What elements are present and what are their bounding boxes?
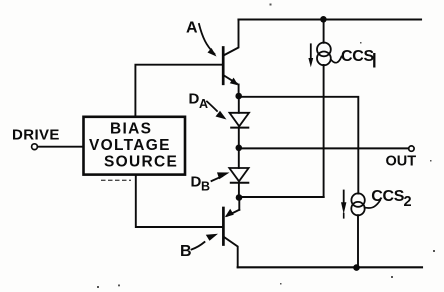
diode DB: [229, 168, 248, 183]
scan speckles: [97, 4, 435, 289]
svg-text:CCS: CCS: [341, 48, 375, 65]
wire: base of A from bias box: [135, 65, 223, 117]
svg-text:D: D: [189, 91, 200, 108]
node: bottom rail junction to CCS2: [353, 264, 360, 271]
current direction arrow for CCS2: [341, 191, 346, 218]
node: output node between DA and DB: [236, 145, 243, 152]
label: DB (diode): [191, 174, 211, 194]
node: A emitter / DA anode junction: [235, 93, 242, 100]
svg-text:D: D: [191, 174, 202, 191]
svg-text:2: 2: [404, 194, 412, 210]
svg-text:DRIVE: DRIVE: [12, 127, 60, 144]
wire: DB cathode down to node: [238, 183, 240, 198]
wire: DA anode lead: [238, 96, 240, 113]
svg-text:CCS: CCS: [371, 188, 405, 205]
svg-text:SOURCE: SOURCE: [104, 154, 178, 171]
diode DA: [230, 113, 250, 128]
wire: top supply rail: [239, 18, 422, 20]
svg-text:A: A: [186, 20, 198, 37]
scan artifact: dashed streak under bias box: [101, 179, 131, 181]
wire: DRIVE input to bias box: [38, 146, 84, 148]
transistor A emitter with arrow: [224, 76, 239, 97]
terminal: OUT open circle: [409, 146, 414, 151]
label: CCS2: [371, 188, 411, 210]
wire: bottom supply rail: [238, 266, 422, 268]
svg-text:BIAS: BIAS: [110, 121, 152, 138]
wire: from node A-emitter right to CCS2 column: [239, 97, 359, 194]
wire: DA cathode to mid node: [238, 128, 240, 148]
leader arrow for label B: [192, 234, 219, 250]
wire: DB anode lead: [238, 148, 240, 168]
wire: output line to OUT terminal: [239, 147, 409, 149]
wire: base of B from bias box: [136, 176, 224, 227]
svg-text:A: A: [199, 97, 208, 111]
leader arrow for label DB: [212, 172, 230, 181]
label: CCS1: [341, 48, 375, 68]
leader squiggle from CCS2 symbol to its label: [365, 200, 381, 208]
label: BIAS VOLTAGE SOURCE text: [89, 121, 178, 171]
transistor Q A (NPN), base bar: [222, 48, 225, 84]
leader for label A (curved): [199, 24, 217, 57]
wire: CCS1 bottom lead down to node B-emitter: [323, 65, 325, 197]
svg-text:B: B: [201, 180, 210, 194]
svg-text:B: B: [180, 243, 192, 260]
current direction arrow for CCS1: [308, 44, 313, 67]
bias box: BIAS VOLTAGE SOURCE: [84, 117, 186, 175]
leader squiggle from CCS1 symbol to its label: [331, 57, 342, 63]
wire: CCS2 bottom lead: [357, 215, 359, 267]
leader arrow for label DA: [207, 102, 227, 120]
node: DB cathode / B emitter junction: [236, 194, 243, 201]
terminal: DRIVE open circle: [32, 144, 38, 150]
transistor B collector: [224, 237, 238, 267]
wire: horizontal from node below DB to CCS1 column: [239, 196, 324, 198]
transistor Q B (PNP), base bar: [222, 208, 225, 245]
wire: CCS1 top lead: [323, 20, 325, 43]
current source CCS1 (interlocked circles): [317, 43, 331, 66]
svg-text:VOLTAGE: VOLTAGE: [89, 137, 171, 154]
transistor A collector: [224, 20, 239, 56]
node: top rail junction to CCS1: [320, 16, 327, 23]
svg-text:OUT: OUT: [386, 154, 417, 170]
current source CCS2 (interlocked circles): [351, 193, 365, 215]
transistor B emitter with arrow pointing to bar: [225, 198, 240, 218]
label: DA (diode): [189, 91, 209, 112]
